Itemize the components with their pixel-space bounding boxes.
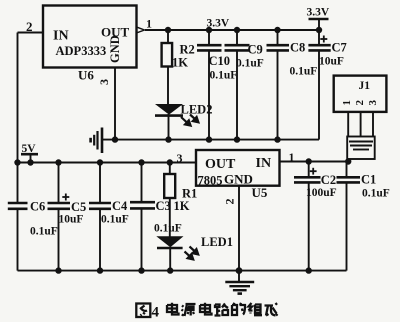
svg-text:C8: C8 <box>290 41 305 55</box>
svg-text:LED2: LED2 <box>181 103 213 117</box>
svg-text:0.1uF: 0.1uF <box>154 223 182 235</box>
svg-text:2: 2 <box>223 199 237 205</box>
svg-text:U6: U6 <box>78 68 94 83</box>
svg-text:3.3V: 3.3V <box>307 7 330 19</box>
svg-text:0.1uF: 0.1uF <box>210 70 238 82</box>
svg-text:C4: C4 <box>112 199 128 213</box>
svg-text:1K: 1K <box>172 56 188 70</box>
svg-text:2: 2 <box>354 100 366 106</box>
svg-text:0.1uF: 0.1uF <box>290 66 318 78</box>
svg-text:OUT: OUT <box>205 157 236 172</box>
svg-text:10uF: 10uF <box>59 214 84 226</box>
svg-text:1: 1 <box>341 100 353 106</box>
svg-text:100uF: 100uF <box>306 187 337 199</box>
svg-text:C5: C5 <box>71 200 86 214</box>
svg-text:R2: R2 <box>180 43 195 57</box>
svg-text:3: 3 <box>367 100 379 106</box>
svg-text:C10: C10 <box>209 54 231 68</box>
svg-text:1: 1 <box>146 17 152 31</box>
svg-text:1K: 1K <box>174 199 190 213</box>
svg-text:0.1uF: 0.1uF <box>236 58 264 70</box>
svg-text:GND: GND <box>108 35 122 63</box>
svg-text:7805: 7805 <box>198 174 223 188</box>
svg-text:3.3V: 3.3V <box>207 18 230 30</box>
svg-text:IN: IN <box>53 29 69 44</box>
svg-text:C2: C2 <box>321 173 336 187</box>
svg-text:0.1uF: 0.1uF <box>101 214 129 226</box>
svg-text:GND: GND <box>224 172 253 187</box>
svg-text:C6: C6 <box>30 200 45 214</box>
svg-text:3: 3 <box>177 151 183 165</box>
svg-text:C9: C9 <box>248 43 263 57</box>
svg-text:C3: C3 <box>156 199 171 213</box>
svg-text:2: 2 <box>26 19 33 34</box>
svg-text:5V: 5V <box>22 143 37 155</box>
svg-text:3: 3 <box>97 79 111 85</box>
svg-text:C7: C7 <box>332 41 347 55</box>
svg-text:1: 1 <box>289 150 295 164</box>
svg-text:LED1: LED1 <box>201 235 233 249</box>
svg-text:0.1uF: 0.1uF <box>30 226 58 238</box>
svg-text:ADP3333: ADP3333 <box>56 44 107 58</box>
svg-text:U5: U5 <box>252 185 268 200</box>
svg-text:0.1uF: 0.1uF <box>362 188 390 200</box>
svg-text:10uF: 10uF <box>319 56 344 68</box>
svg-text:4: 4 <box>152 305 160 321</box>
svg-text:IN: IN <box>256 156 272 171</box>
svg-text:C1: C1 <box>361 173 376 187</box>
svg-text:J1: J1 <box>359 80 371 92</box>
